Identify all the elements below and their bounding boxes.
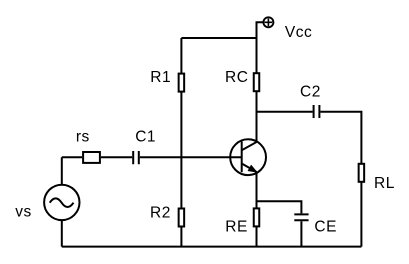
svg-text:Vcc: Vcc xyxy=(285,24,312,41)
svg-text:R1: R1 xyxy=(150,69,171,86)
svg-text:RE: RE xyxy=(225,218,248,235)
svg-text:R2: R2 xyxy=(150,204,171,221)
svg-text:CE: CE xyxy=(314,218,337,235)
svg-text:RL: RL xyxy=(374,175,395,192)
svg-text:C2: C2 xyxy=(300,84,321,101)
svg-text:vs: vs xyxy=(15,204,32,221)
svg-text:rs: rs xyxy=(76,129,90,146)
svg-text:RC: RC xyxy=(225,69,248,86)
svg-text:C1: C1 xyxy=(135,129,156,146)
